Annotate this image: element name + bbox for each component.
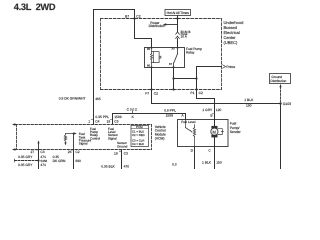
svg-text:C4 = BLK: C4 = BLK: [132, 142, 144, 146]
svg-text:C2 = RED: C2 = RED: [132, 133, 145, 137]
wire P1 riser and prime feed: [197, 67, 222, 99]
svg-text:G103: G103: [283, 102, 291, 106]
svg-text:470: 470: [124, 165, 130, 169]
svg-text:(UBEC): (UBEC): [224, 40, 238, 45]
wire from B7 down to relay coil terminal: [135, 19, 152, 48]
svg-text:1589: 1589: [114, 115, 122, 119]
svg-text:27: 27: [31, 150, 35, 154]
VCM internal FTP pull resistor: [64, 134, 73, 143]
ground distribution reference box: [270, 74, 291, 84]
wire 1 GRY 120 to pump B: [197, 99, 215, 120]
svg-text:(VCM): (VCM): [155, 136, 165, 140]
svg-text:C4: C4: [95, 119, 99, 123]
svg-text:C302: C302: [127, 107, 137, 111]
wire 87 bus to P1: [174, 78, 197, 80]
svg-text:0.35 PPL: 0.35 PPL: [95, 115, 109, 119]
node G103: [279, 102, 281, 104]
node F7/C2: [150, 88, 152, 90]
svg-text:0.8 PPL: 0.8 PPL: [164, 108, 176, 112]
svg-text:19: 19: [107, 119, 111, 123]
svg-text:19: 19: [114, 152, 118, 156]
svg-text:150: 150: [216, 160, 222, 164]
svg-text:Fuel: Fuel: [230, 121, 237, 125]
wire 0.8 PPL 1589 horizontal run to pump A: [113, 114, 186, 125]
svg-text:Fuel Level: Fuel Level: [181, 120, 196, 124]
svg-text:C3: C3: [124, 152, 128, 156]
svg-text:465: 465: [95, 97, 101, 101]
svg-text:Sender: Sender: [230, 130, 242, 134]
svg-text:Distribution: Distribution: [149, 24, 166, 28]
node at border cavity: [172, 88, 174, 90]
connector Prime: [223, 65, 226, 68]
splice node on 474: [37, 159, 39, 161]
wire sender ground: [194, 147, 196, 170]
relay U: fuel pump relay box: [145, 48, 185, 68]
svg-text:K: K: [132, 115, 135, 119]
svg-text:DK GRN: DK GRN: [53, 159, 66, 163]
PCM connector color table: [131, 126, 149, 147]
svg-text:87: 87: [169, 62, 173, 66]
label Fuel Pump/ Sender: [230, 121, 242, 134]
wire sensor ground 0.35 BLK 470: [121, 150, 123, 170]
VCM internal FTP input arrow: [74, 132, 77, 134]
dashed branch wire 0.35 GRY 474: [15, 160, 39, 162]
svg-text:B7: B7: [125, 14, 129, 18]
svg-text:Ground: Ground: [117, 144, 128, 148]
svg-text:0.35 GRY: 0.35 GRY: [18, 155, 33, 159]
svg-text:20 A: 20 A: [181, 35, 188, 39]
svg-text:0.35 GRY: 0.35 GRY: [18, 163, 33, 167]
node hot feed at UBEC top border: [176, 17, 178, 19]
node P1/C2 at border: [195, 88, 197, 90]
wire FTP signal 0.35 DK GRN 890: [73, 150, 75, 170]
wire pin 27 internal stub: [38, 143, 40, 150]
svg-text:C3: C3: [40, 150, 44, 154]
svg-text:26: 26: [68, 150, 72, 154]
wire 87 down to border: [173, 68, 175, 90]
wire hot feed down from Hot box: [177, 16, 179, 32]
svg-text:474: 474: [40, 163, 46, 167]
svg-text:0.8 DK GRN/WHT: 0.8 DK GRN/WHT: [59, 97, 86, 101]
wire pin 26 internal: [73, 134, 75, 150]
UBEC dashed box: [101, 19, 222, 90]
svg-text:30: 30: [171, 47, 175, 51]
svg-text:Relay: Relay: [186, 50, 195, 54]
fuel pump sender box: [178, 120, 229, 147]
label Underhood Bussed Electrical Center (UBEC): [224, 20, 244, 45]
VCM continuation arrow bottom: [12, 148, 15, 150]
svg-text:D: D: [191, 148, 194, 152]
wire fuse to relay 30: [177, 39, 179, 48]
Hot At All Times box: [165, 10, 191, 16]
svg-text:85: 85: [147, 47, 151, 51]
node P1 junction: [195, 77, 197, 79]
svg-text:Distribution: Distribution: [270, 79, 286, 83]
svg-text:B: B: [210, 113, 213, 117]
label Vehicle Control Module (VCM): [155, 125, 166, 140]
svg-text:F7: F7: [145, 91, 149, 95]
VCM dashed box: [15, 125, 152, 150]
sender wiper arrow: [186, 128, 191, 132]
svg-text:86: 86: [147, 64, 151, 68]
svg-text:Signal: Signal: [79, 142, 88, 146]
svg-text:C2: C2: [154, 91, 158, 95]
svg-text:150: 150: [246, 104, 252, 108]
relay switch: [174, 48, 178, 68]
VCM continuation arrow top: [12, 123, 15, 125]
svg-text:120: 120: [216, 108, 222, 112]
svg-text:1 BLK: 1 BLK: [244, 98, 254, 102]
node 87 branch: [172, 77, 174, 79]
wire 1 BLK 150 to G103: [152, 103, 281, 105]
wire 1 BLK 150 pump ground: [214, 147, 216, 170]
connector C302 pin K: [132, 111, 134, 114]
VCM internal signal names: [79, 127, 128, 149]
relay coil with resistor: [151, 48, 161, 68]
svg-text:Control: Control: [90, 136, 100, 140]
svg-text:4.3L 2WD: 4.3L 2WD: [14, 2, 56, 12]
svg-text:C2: C2: [75, 150, 79, 154]
svg-text:Hot At All Times: Hot At All Times: [167, 11, 190, 15]
svg-text:0.3: 0.3: [172, 162, 177, 166]
dashed link to ground distribution: [280, 87, 282, 103]
svg-text:1 BLK: 1 BLK: [202, 160, 212, 164]
svg-text:1: 1: [88, 119, 90, 123]
wire coil ground: 86 down across UBEC border: [151, 68, 153, 104]
pump motor M: [214, 120, 216, 127]
Power Distribution arrow: [165, 24, 178, 26]
svg-text:0.35 BLK: 0.35 BLK: [101, 165, 115, 169]
fuel level sender resistor: [186, 120, 196, 147]
svg-text:Pump/: Pump/: [230, 126, 240, 130]
fuse F: ECM B 20 A: [176, 32, 180, 39]
svg-text:P1: P1: [190, 91, 194, 95]
svg-text:C2: C2: [199, 91, 203, 95]
svg-text:1589: 1589: [166, 114, 174, 118]
svg-text:C3: C3: [114, 119, 118, 123]
svg-text:C: C: [208, 148, 211, 152]
wire fuel level signal 0.35 GRY 474: [38, 150, 40, 170]
svg-text:1 GRY: 1 GRY: [202, 108, 213, 112]
svg-text:Prime: Prime: [226, 65, 235, 69]
svg-text:M: M: [213, 129, 216, 134]
ground wire down from G103: [280, 104, 282, 170]
svg-text:C2: C2: [136, 14, 140, 18]
wire 465 top run: from B7 C2 up over to left and down into VCM: [94, 10, 135, 125]
svg-text:Signal: Signal: [108, 136, 117, 140]
svg-text:890: 890: [75, 159, 81, 163]
node B7/C2 at UBEC top border: [133, 17, 135, 19]
